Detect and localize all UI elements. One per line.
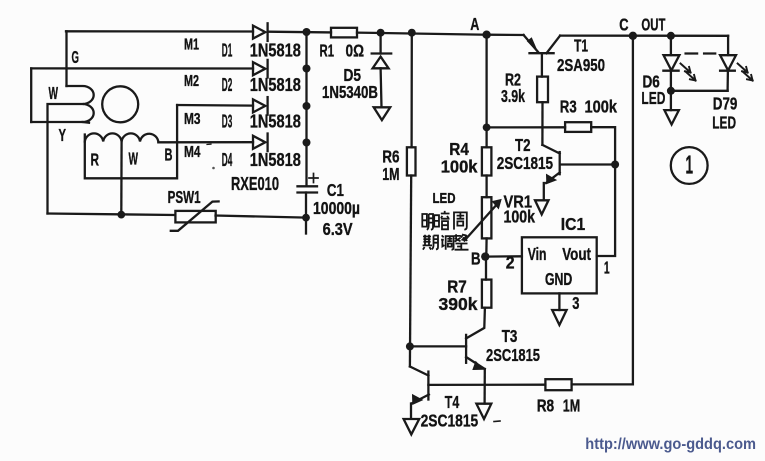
wire B to Vin pin2 [485, 255, 522, 258]
node junction below A [483, 124, 491, 132]
svg-text:1N5818: 1N5818 [250, 74, 301, 95]
wire M4 [158, 141, 253, 143]
resistor R7 [482, 280, 492, 308]
wire R2 to T2 collector [541, 102, 543, 145]
char zhou [454, 212, 467, 229]
wire R7 to T3 collector [466, 308, 485, 339]
node junction D6 bottom [667, 87, 675, 95]
terminal box RWB [85, 105, 177, 178]
ground arrow below T4 [404, 419, 420, 434]
diode D1 [253, 26, 265, 39]
LED D79 [720, 55, 736, 70]
wire dashed D6-D79 [686, 52, 716, 54]
svg-text:R1: R1 [320, 40, 335, 60]
svg-text:RXE010: RXE010 [231, 173, 279, 194]
wire GND pin3 [558, 293, 560, 310]
node B [481, 252, 489, 260]
svg-text:LED: LED [433, 191, 456, 207]
char zheng [455, 234, 469, 250]
wire W tap to Y rail [48, 104, 83, 214]
wire bottom rail [48, 214, 175, 216]
circled number 1 [671, 147, 708, 184]
svg-text:B: B [165, 145, 173, 165]
wire Vout pin1 [597, 165, 615, 257]
diode D4 [253, 136, 265, 149]
transistor T4 2SC1815 [427, 372, 429, 400]
svg-text:W: W [129, 148, 139, 168]
node junction T2-R3-Vout [611, 161, 619, 169]
wire D6 bottom to D79 bottom [671, 90, 728, 92]
resistor R1 [331, 28, 357, 38]
wire rectifier bus [305, 32, 307, 187]
svg-text:Y: Y [59, 125, 67, 145]
svg-text:G: G [72, 47, 80, 67]
wire A down [485, 35, 487, 148]
scan speck below M4 [212, 167, 215, 170]
diode D3 [253, 99, 265, 112]
wire to R3 [487, 126, 565, 128]
resistor R6 [407, 147, 416, 175]
resistor R2 [537, 77, 548, 103]
svg-text:http://www.go-gddq.com: http://www.go-gddq.com [585, 436, 756, 453]
transistor T1 2SA950 [530, 52, 554, 54]
svg-text:Vin: Vin [528, 244, 547, 264]
wire R4 to VR1 [485, 176, 487, 198]
svg-text:C: C [619, 14, 629, 34]
svg-text:T3: T3 [502, 326, 518, 346]
ground arrow below T3 [476, 404, 491, 419]
resistor R8 [545, 379, 571, 390]
ground arrow IC1 [552, 310, 566, 325]
svg-text:3.9k: 3.9k [501, 86, 525, 106]
zener diode D5 [379, 33, 381, 54]
svg-text:R8: R8 [537, 396, 555, 416]
wire M3 [177, 104, 253, 107]
svg-text:2SC1815: 2SC1815 [497, 153, 554, 173]
svg-text:OUT: OUT [641, 14, 665, 34]
char tiao [441, 235, 454, 249]
node C [629, 32, 637, 40]
wire M2 [31, 67, 253, 69]
wire T4 collector to R8 [428, 384, 545, 386]
node junction W tap [117, 211, 125, 219]
svg-text:6.3V: 6.3V [323, 219, 353, 239]
svg-text:M4: M4 [184, 144, 201, 161]
node junction R1-D5 [377, 29, 385, 37]
svg-text:R: R [91, 150, 100, 170]
svg-text:1N5818: 1N5818 [250, 111, 301, 132]
svg-text:LED: LED [712, 113, 736, 133]
potentiometer VR1 [482, 197, 492, 238]
wire A to T1 emitter [487, 34, 524, 37]
node A [482, 31, 490, 39]
LED D6 emission arrows [681, 64, 691, 73]
resistor R3 [565, 122, 591, 132]
char ming [422, 214, 433, 230]
ground arrow below D6 [664, 110, 679, 124]
transistor T3 2SC1815 [465, 335, 467, 363]
svg-text:1M: 1M [382, 164, 399, 184]
svg-text:W: W [49, 83, 59, 103]
label LED dimming cycle chinese text [422, 211, 468, 250]
wire D79 drop [727, 36, 729, 55]
svg-text:D3: D3 [222, 111, 233, 132]
svg-text:0Ω: 0Ω [346, 40, 365, 60]
svg-text:1N5818: 1N5818 [250, 40, 301, 61]
node bus junction D4 [303, 139, 311, 147]
svg-text:B: B [471, 248, 481, 268]
rotor circle [102, 86, 138, 122]
svg-text:LED: LED [641, 88, 665, 108]
svg-text:1M: 1M [563, 396, 581, 416]
svg-text:M1: M1 [184, 37, 199, 54]
wire B to R7 [485, 257, 487, 280]
wire M1 top [66, 30, 253, 33]
switch PSW1 [175, 211, 215, 223]
char qi [423, 235, 438, 250]
svg-text:1N5818: 1N5818 [250, 149, 301, 170]
node junction T3 base [406, 342, 414, 350]
generator stator coil G-W [31, 86, 93, 122]
svg-text:D2: D2 [222, 74, 233, 95]
wire coil bottom stub [83, 121, 89, 124]
svg-text:M2: M2 [184, 73, 199, 90]
wire R8 to C rail [572, 36, 633, 385]
svg-text:T2: T2 [515, 135, 531, 155]
svg-text:1: 1 [604, 257, 610, 277]
svg-text:100k: 100k [585, 97, 618, 117]
svg-text:1N5340B: 1N5340B [322, 82, 378, 102]
svg-text:1: 1 [686, 150, 694, 180]
wire node G drop [65, 31, 67, 86]
svg-text:IC1: IC1 [561, 214, 586, 234]
transistor T2 2SC1815 [559, 152, 561, 174]
node bus junction D2 [303, 65, 311, 73]
diode D2 [253, 62, 265, 75]
svg-text:2SC1815: 2SC1815 [421, 411, 479, 431]
svg-text:R3: R3 [560, 97, 577, 117]
wire left rail to M2 [30, 68, 32, 122]
resistor R4 [482, 147, 492, 175]
svg-text:390k: 390k [439, 294, 478, 314]
generator field coil R-W-B [85, 133, 159, 142]
wire R3 right down [591, 127, 615, 164]
svg-text:C1: C1 [327, 180, 344, 200]
wire R1 to A [269, 31, 331, 34]
scan speck left of PSW1 [207, 143, 211, 145]
LED D6 [670, 36, 672, 55]
svg-text:10000µ: 10000µ [313, 198, 360, 218]
svg-text:2SA950: 2SA950 [557, 55, 605, 75]
node junction R6 top [408, 29, 416, 37]
wire R6 down to T3 base junction [410, 176, 411, 367]
svg-text:D79: D79 [713, 94, 738, 114]
svg-text:2: 2 [506, 253, 515, 273]
wire VR1 to node B [485, 238, 488, 256]
svg-text:100k: 100k [504, 206, 536, 226]
svg-text:D1: D1 [222, 40, 233, 61]
svg-text:D4: D4 [222, 149, 233, 170]
node junction D6 top [667, 32, 675, 40]
svg-text:M3: M3 [184, 111, 201, 128]
wire T1 collector to C to D79 corner [560, 34, 728, 37]
svg-text:A: A [470, 14, 479, 34]
wire D6 ground stub [670, 91, 672, 110]
LED D79 emission arrows [738, 64, 748, 73]
svg-text:PSW1: PSW1 [168, 187, 201, 207]
node bus junction D3 [303, 102, 311, 110]
svg-text:2SC1815: 2SC1815 [486, 345, 540, 365]
ground arrow below T2 [535, 200, 549, 214]
svg-text:T4: T4 [445, 392, 460, 412]
svg-text:T1: T1 [574, 35, 588, 55]
node C1 bottom junction [302, 214, 310, 222]
wire W center tap down [120, 140, 123, 215]
ground arrow below D5 [374, 107, 391, 120]
svg-text:Vout: Vout [562, 244, 591, 264]
svg-text:100k: 100k [441, 156, 478, 176]
char an [434, 211, 449, 229]
svg-text:3: 3 [572, 293, 579, 313]
wire R6 branch [410, 33, 412, 148]
capacitor C1 [298, 185, 318, 187]
scan speck near T4 ground [494, 420, 500, 423]
wire PSW1 to C1 bottom [216, 216, 307, 218]
node bus junction D1 [303, 28, 311, 36]
svg-text:GND: GND [545, 269, 572, 289]
IC1 box [522, 237, 597, 293]
